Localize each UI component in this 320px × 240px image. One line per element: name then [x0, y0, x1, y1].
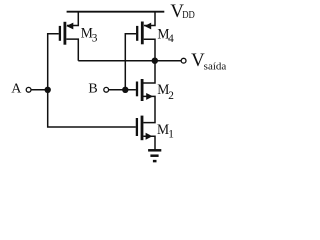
wire A junction down to M1 gate	[48, 90, 136, 127]
wire M1 source down to ground	[143, 136, 155, 150]
svg-text:2: 2	[168, 90, 174, 102]
ground	[148, 150, 161, 161]
wire M2 source down to M1 drain	[143, 96, 155, 122]
label M3	[81, 26, 98, 45]
terminal A open circle	[26, 87, 31, 92]
wire B terminal to M2 gate	[109, 89, 136, 91]
power VDD label	[170, 1, 194, 22]
wire VDD rail	[67, 11, 165, 13]
wire M3 drain up to VDD rail	[67, 12, 78, 26]
wire B junction up to M4 gate	[125, 34, 136, 90]
svg-text:B: B	[88, 82, 97, 97]
label M1	[157, 122, 174, 140]
terminal Vsaida open circle	[181, 58, 186, 63]
transistor M2	[137, 79, 153, 101]
svg-text:4: 4	[168, 33, 174, 45]
label Vsaida	[191, 50, 227, 73]
node B junction dot	[122, 87, 128, 93]
svg-text:saída: saída	[204, 62, 227, 73]
svg-text:A: A	[11, 82, 22, 97]
svg-text:1: 1	[168, 129, 174, 141]
terminal B open circle	[104, 87, 109, 92]
node A junction dot	[45, 87, 51, 93]
wire output net horizontal	[78, 60, 181, 62]
wire M4 drain up to VDD rail	[144, 12, 155, 26]
transistor M1	[137, 116, 153, 141]
label M4	[157, 26, 174, 45]
wire A junction up to M3 gate	[48, 34, 59, 90]
transistor M4	[137, 22, 151, 45]
label M2	[157, 82, 174, 102]
wire A terminal to junction	[31, 89, 48, 91]
wire M4 source down through output node to M2 drain	[144, 39, 156, 83]
node output junction dot	[152, 58, 158, 64]
svg-text:3: 3	[92, 32, 98, 44]
wire M3 source down to output net	[66, 39, 78, 61]
svg-text:DD: DD	[182, 10, 195, 21]
transistor M3	[60, 22, 73, 45]
